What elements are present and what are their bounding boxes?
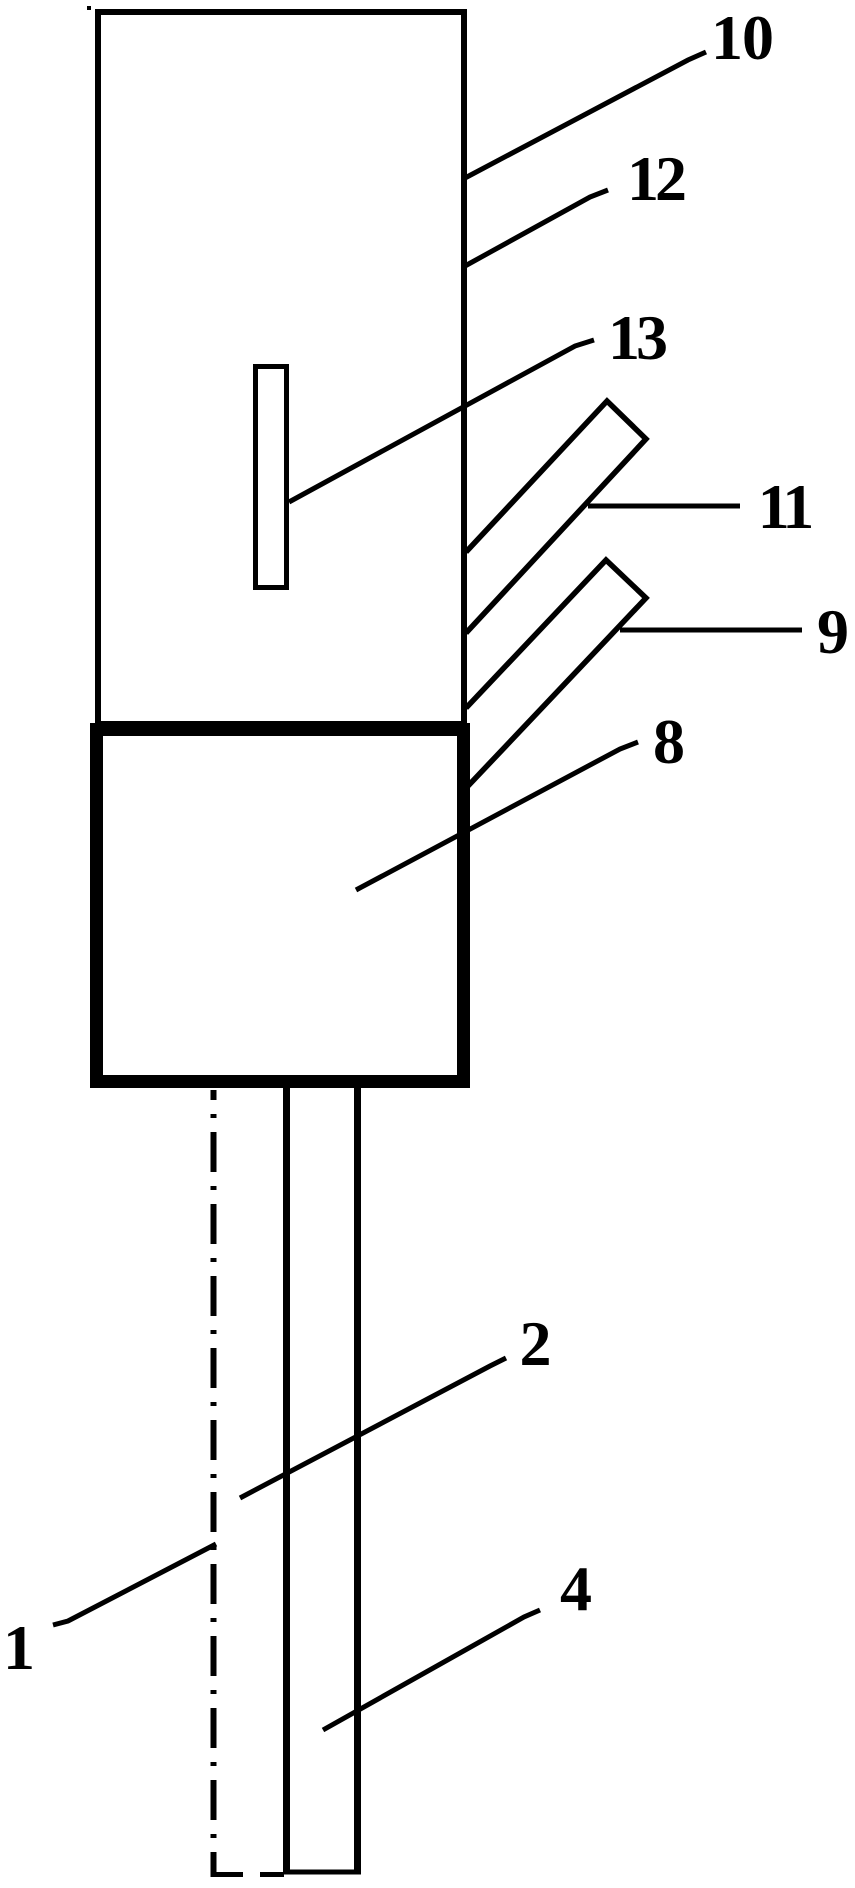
svg-text:4: 4 (560, 1553, 592, 1624)
svg-text:9: 9 (817, 596, 849, 667)
svg-text:2: 2 (520, 1308, 552, 1379)
svg-text:10: 10 (711, 2, 773, 73)
svg-text:12: 12 (627, 143, 685, 214)
svg-text:8: 8 (653, 706, 685, 777)
svg-text:1: 1 (3, 1612, 35, 1683)
svg-text:13: 13 (608, 302, 666, 373)
svg-text:11: 11 (758, 471, 811, 542)
